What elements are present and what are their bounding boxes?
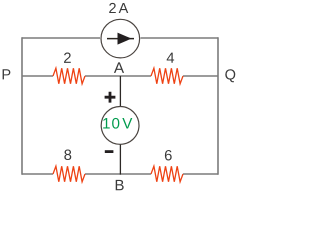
- node Q label: [225, 69, 235, 82]
- node A label: [114, 62, 124, 73]
- wire: bottom, resistor 8 to resistor 6 through node B: [85, 173, 151, 175]
- wire: top-left horizontal from P rail to current source: [22, 37, 100, 39]
- wire: middle right, resistor 4 to node Q: [183, 75, 218, 77]
- resistor R1 value 2 (zigzag): [53, 68, 85, 84]
- voltage source value label 10V: [103, 118, 132, 129]
- voltage source plus polarity sign: [105, 92, 116, 103]
- voltage source minus polarity sign: [105, 150, 114, 153]
- resistor R3 value 8 (zigzag): [53, 166, 85, 182]
- resistor value label 6: [165, 150, 172, 160]
- node P label: [3, 69, 11, 79]
- node B label: [116, 180, 124, 190]
- current source I1 circle: [101, 19, 140, 58]
- wire: middle, resistor 2 to resistor 4 through node A: [85, 75, 151, 77]
- wire: right vertical Q rail: [217, 37, 219, 175]
- resistor R4 value 6 (zigzag): [151, 166, 183, 182]
- resistor value label 2: [64, 53, 71, 63]
- wire: top-right horizontal from current source to Q rail: [141, 37, 219, 39]
- wire: voltage source minus terminal down to node B: [119, 143, 121, 175]
- wire: bottom left, P rail to resistor 8: [22, 173, 53, 175]
- wire: node A down to voltage source plus terminal: [119, 76, 121, 107]
- wire: left vertical P rail: [21, 37, 23, 175]
- current source value label 2A: [109, 3, 128, 13]
- resistor value label 4: [167, 53, 174, 63]
- voltage source V1 circle: [101, 107, 139, 145]
- wire: middle left, node P to resistor 2: [22, 75, 53, 77]
- current source I1 arrow: [107, 38, 134, 40]
- resistor R2 value 4 (zigzag): [151, 68, 183, 84]
- resistor value label 8: [64, 150, 71, 160]
- wire: bottom right, resistor 6 to Q rail: [183, 173, 218, 175]
